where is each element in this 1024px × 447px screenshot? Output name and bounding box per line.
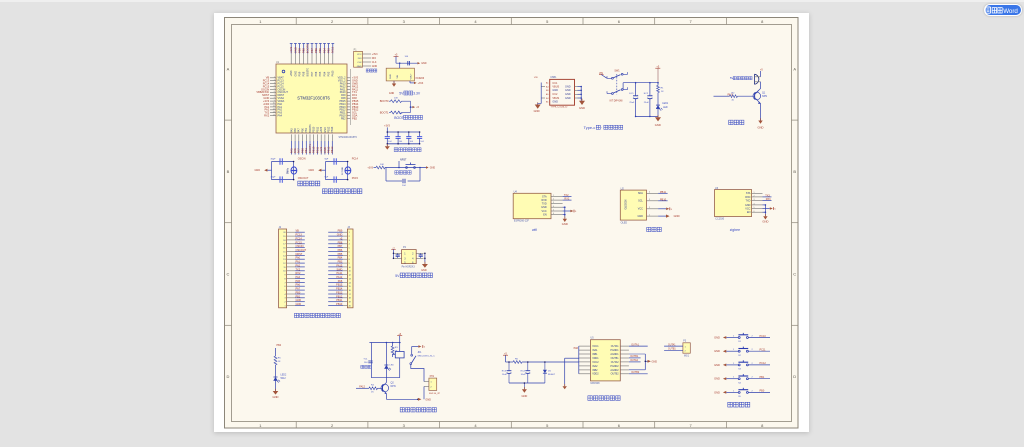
svg-text:16: 16 [283,248,285,250]
svg-text:2: 2 [754,196,755,198]
svg-text:2: 2 [349,236,350,238]
svg-text:30pF: 30pF [271,158,277,160]
svg-text:GND: GND [674,214,680,218]
svg-text:PA7: PA7 [297,148,301,153]
svg-text:OUTA2: OUTA2 [630,359,638,362]
svg-text:GND: GND [296,303,302,306]
svg-text:GND: GND [655,123,661,127]
svg-text:BOOT: BOOT [394,116,404,120]
svg-text:SWD: SWD [336,268,342,271]
svg-text:TYPE-C-31-M-12: TYPE-C-31-M-12 [551,107,569,109]
svg-text:NPN: NPN [762,95,767,98]
svg-text:GND: GND [552,101,558,104]
svg-text:PA6: PA6 [574,347,579,350]
svg-text:PC10: PC10 [760,335,767,338]
svg-text:LED: LED [663,107,668,109]
svg-text:CLK: CLK [357,62,362,64]
svg-text:GND: GND [323,147,327,153]
svg-text:5: 5 [274,88,275,90]
svg-text:OLED: OLED [621,222,628,225]
svg-text:PB7: PB7 [310,48,314,54]
svg-text:9: 9 [274,100,275,102]
svg-text:10: 10 [349,267,351,269]
svg-text:+3V3: +3V3 [290,70,293,77]
svg-text:GND: GND [652,360,658,363]
svg-text:PA15: PA15 [336,264,343,267]
svg-text:PB8: PB8 [303,71,306,76]
svg-text:16: 16 [349,290,351,292]
svg-text:PA7: PA7 [296,288,301,291]
svg-text:20: 20 [283,232,285,234]
svg-text:10uF: 10uF [521,374,527,376]
svg-text:1: 1 [685,346,686,348]
svg-text:18: 18 [349,298,351,300]
svg-text:5: 5 [754,207,755,209]
svg-text:INA2: INA2 [592,365,598,368]
svg-text:LED2: LED2 [281,375,287,377]
svg-text:9: 9 [349,263,350,265]
svg-text:TXD: TXD [542,202,547,205]
svg-text:+3V3: +3V3 [418,82,424,85]
svg-text:15: 15 [349,286,351,288]
svg-text:OSCOUT: OSCOUT [298,177,309,180]
svg-text:EN: EN [747,211,751,214]
svg-text:PB2: PB2 [341,117,346,120]
svg-text:GND: GND [324,127,327,133]
svg-text:GND: GND [745,204,751,207]
svg-text:PB13: PB13 [336,292,343,295]
svg-text:12: 12 [349,275,351,277]
svg-text:GND: GND [357,66,362,68]
svg-text:GND: GND [254,169,260,172]
svg-text:GND: GND [714,349,720,353]
svg-text:PB11: PB11 [315,146,319,153]
svg-text:1: 1 [274,77,275,79]
svg-text:C: C [793,272,796,277]
svg-text:18: 18 [283,240,285,242]
svg-text:30pF: 30pF [271,176,277,178]
svg-text:PB10: PB10 [336,303,343,306]
svg-text:GND: GND [389,92,395,95]
svg-text:PB1: PB1 [760,376,765,379]
svg-text:PC15: PC15 [352,177,359,180]
svg-text:PB12: PB12 [336,295,343,298]
svg-text:Pin HDR2X3: Pin HDR2X3 [402,267,416,269]
svg-text:7: 7 [274,94,275,96]
svg-text:D: D [227,374,230,379]
svg-text:PB0: PB0 [296,292,301,295]
svg-text:STM32F103C8T6: STM32F103C8T6 [297,96,330,101]
svg-text:OUTB2: OUTB2 [611,373,620,376]
svg-text:PB15: PB15 [336,284,343,287]
svg-text:17: 17 [349,294,351,296]
svg-text:GND: GND [552,89,558,92]
svg-text:11: 11 [284,267,286,269]
svg-text:GND: GND [308,169,314,172]
svg-text:PB5: PB5 [318,48,322,54]
svg-text:PA8: PA8 [338,280,343,283]
svg-text:BOOT0: BOOT0 [306,44,310,54]
svg-text:GND: GND [762,220,768,224]
svg-text:GND: GND [421,269,427,272]
svg-text:MX1508: MX1508 [591,382,601,385]
svg-text:PB5: PB5 [338,253,343,256]
svg-text:PB4: PB4 [323,71,326,76]
svg-text:OUTB1: OUTB1 [630,355,639,358]
svg-text:PB10: PB10 [313,126,316,133]
svg-text:PB0: PB0 [302,127,305,132]
svg-text:12: 12 [273,109,275,111]
svg-text:VDD2: VDD2 [592,373,599,376]
svg-text:GND: GND [372,65,378,68]
svg-text:PB1: PB1 [305,127,308,132]
svg-text:OUTA2: OUTA2 [611,361,619,364]
svg-text:INB1: INB1 [592,353,598,356]
svg-text:PB6: PB6 [338,249,343,252]
svg-text:PB11: PB11 [316,126,319,133]
svg-text:4: 4 [349,244,350,246]
svg-text:GND: GND [714,363,720,367]
svg-text:wifi: wifi [532,228,537,232]
svg-text:GND: GND [562,222,568,226]
svg-text:+3V3: +3V3 [372,53,378,56]
svg-text:VBUS: VBUS [552,97,559,100]
svg-text:TX2: TX2 [296,268,301,271]
svg-text:PB1: PB1 [296,295,301,298]
svg-text:GND: GND [430,167,436,170]
svg-text:PB1: PB1 [304,148,308,154]
svg-text:XH2.54_2P: XH2.54_2P [429,393,441,395]
svg-text:2: 2 [431,387,432,389]
svg-text:OLED096: OLED096 [625,199,627,210]
svg-text:RX2: RX2 [564,198,569,201]
svg-text:PC11: PC11 [760,349,767,352]
svg-text:1: 1 [349,232,350,234]
svg-text:4: 4 [754,204,755,206]
svg-text:PA5: PA5 [290,128,293,133]
svg-text:PB3: PB3 [328,71,331,76]
svg-text:+3V3: +3V3 [320,126,323,133]
svg-text:GND: GND [758,126,764,130]
svg-text:OUTA1: OUTA1 [668,343,676,346]
svg-text:VOUT: VOUT [411,73,413,80]
svg-text:PA11: PA11 [337,272,343,275]
svg-text:PB12: PB12 [327,146,331,153]
svg-text:Type-c: Type-c [584,125,596,130]
svg-text:SCL: SCL [638,200,643,203]
svg-text:TXD: TXD [746,199,751,202]
svg-text:XC6206: XC6206 [415,77,424,80]
svg-text:PA6: PA6 [296,284,301,287]
svg-text:10K: 10K [399,113,403,115]
svg-text:10: 10 [273,103,275,105]
svg-text:B: B [227,169,230,174]
svg-text:VB: VB [296,230,300,233]
svg-text:PB7: PB7 [338,245,343,248]
svg-text:13: 13 [349,278,351,280]
svg-text:PA6: PA6 [293,148,297,153]
svg-text:PB2: PB2 [352,116,357,120]
svg-text:GND: GND [565,85,571,88]
svg-text:5: 5 [284,290,285,292]
svg-text:PA1: PA1 [296,261,301,264]
svg-text:VCC: VCC [638,208,643,211]
svg-text:GND: GND [637,215,643,218]
svg-text:13: 13 [273,111,275,113]
svg-text:8: 8 [274,97,275,99]
svg-text:3: 3 [754,199,755,201]
svg-text:+3V3: +3V3 [319,146,323,153]
svg-text:BOOT1: BOOT1 [308,144,312,154]
svg-text:3: 3 [349,240,350,242]
svg-text:20: 20 [349,305,351,307]
svg-text:9pF: 9pF [325,158,329,160]
svg-text:GND: GND [425,398,431,401]
svg-text:PB6: PB6 [315,71,318,76]
svg-text:VCC: VCC [745,207,750,210]
svg-text:PB9: PB9 [298,71,301,76]
svg-text:STA: STA [746,192,751,195]
svg-text:PB3: PB3 [338,261,343,264]
svg-text:OSCIN: OSCIN [296,245,304,248]
svg-text:PB10: PB10 [312,146,316,153]
svg-text:1: 1 [284,305,285,307]
svg-text:PB13: PB13 [330,146,334,153]
svg-text:6: 6 [349,251,350,253]
svg-text:7: 7 [349,255,350,257]
svg-text:NPN: NPN [391,385,396,388]
svg-text:GND: GND [337,234,343,237]
svg-text:GND: GND [565,97,571,100]
svg-text:CC2: CC2 [552,93,558,96]
svg-text:PB4: PB4 [338,257,343,260]
svg-text:9pF: 9pF [325,176,329,178]
svg-text:VBUS: VBUS [552,85,559,88]
svg-text:PB10: PB10 [660,198,667,201]
svg-text:GND: GND [714,336,720,340]
svg-text:PB4: PB4 [277,344,282,347]
svg-text:13: 13 [283,259,285,261]
svg-text:3: 3 [553,202,554,204]
svg-text:5012: 5012 [281,378,287,380]
svg-text:3: 3 [284,298,285,300]
svg-text:11: 11 [273,106,275,108]
svg-text:14: 14 [273,114,275,116]
svg-text:8: 8 [284,278,285,280]
svg-text:PA15: PA15 [331,46,335,53]
svg-text:GND: GND [714,390,720,394]
svg-text:PA2: PA2 [296,264,301,267]
svg-text:KIT DIP-6X8: KIT DIP-6X8 [610,101,624,103]
svg-text:8: 8 [349,259,350,261]
svg-text:+3V3: +3V3 [289,46,293,53]
svg-text:6: 6 [754,211,755,213]
svg-text:17: 17 [283,244,285,246]
svg-text:BOOT0: BOOT0 [307,67,310,76]
svg-text:2: 2 [553,199,554,201]
svg-text:CLK: CLK [372,61,377,64]
svg-text:GND: GND [534,109,540,113]
svg-text:14: 14 [349,282,351,284]
svg-text:25uF: 25uF [629,102,635,104]
svg-text:GND: GND [522,394,528,398]
svg-text:NRST: NRST [296,253,303,256]
svg-text:OUTA1: OUTA1 [631,343,639,346]
svg-text:6: 6 [553,213,554,215]
svg-text:7: 7 [284,282,285,284]
svg-text:DIO: DIO [372,57,376,60]
svg-text:PB9: PB9 [338,230,343,233]
svg-text:1: 1 [553,195,554,197]
svg-text:PC13: PC13 [296,234,303,237]
svg-text:RXD: RXD [745,196,750,199]
svg-text:PB11: PB11 [660,191,667,194]
svg-text:GND: GND [294,71,297,77]
svg-text:1: 1 [754,192,755,194]
svg-text:PA5: PA5 [289,148,293,153]
svg-text:PA4: PA4 [296,276,301,279]
svg-text:PC14: PC14 [296,237,303,240]
svg-text:PA12: PA12 [336,276,343,279]
svg-text:19: 19 [283,236,285,238]
svg-text:OUTB1: OUTB1 [668,349,676,351]
svg-text:2: 2 [284,302,285,304]
svg-text:Word: Word [1003,7,1018,14]
svg-text:A: A [793,66,796,71]
svg-text:5: 5 [349,248,350,250]
svg-text:PA0: PA0 [296,257,301,260]
svg-text:IN4007: IN4007 [548,374,556,376]
svg-text:+3V3: +3V3 [367,167,373,170]
svg-text:OUTA1: OUTA1 [611,345,619,348]
svg-text:PB5: PB5 [319,71,322,76]
svg-text:VCC: VCC [357,54,362,56]
svg-text:8MHz: 8MHz [287,167,289,174]
svg-text:SW1: SW1 [614,70,620,73]
svg-text:10K: 10K [380,164,384,166]
svg-text:RX2: RX2 [296,272,301,275]
svg-text:PB7: PB7 [311,71,314,76]
svg-text:VCC1: VCC1 [592,345,599,348]
svg-text:PB6: PB6 [314,48,318,54]
svg-text:OSCIN: OSCIN [298,158,306,161]
svg-text:PA15: PA15 [332,70,335,77]
svg-text:OUTB1: OUTB1 [611,357,620,360]
svg-text:B: B [793,169,796,174]
svg-text:STM32F103C8T6: STM32F103C8T6 [339,137,358,139]
svg-text:PB14: PB14 [336,288,343,291]
svg-text:BOOT1: BOOT1 [309,124,312,133]
svg-text:LED1: LED1 [662,103,668,105]
svg-text:PB4: PB4 [322,48,326,54]
svg-text:PB11: PB11 [336,299,343,302]
svg-text:CC2530: CC2530 [715,217,724,220]
svg-text:PA4: PA4 [278,115,283,118]
svg-text:5: 5 [553,210,554,212]
svg-text:EN: EN [543,214,547,217]
svg-text:3: 3 [274,82,275,84]
svg-text:2: 2 [274,79,275,81]
svg-text:A: A [227,66,230,71]
svg-text:DIO: DIO [358,58,362,60]
svg-text:11: 11 [349,271,351,273]
svg-text:PB8: PB8 [338,241,343,244]
svg-text:VDD1: VDD1 [592,357,599,360]
svg-text:VIN: VIN [534,77,538,79]
svg-text:GND: GND [579,106,585,110]
svg-text:RX2: RX2 [264,114,270,118]
svg-text:6: 6 [274,91,275,93]
svg-text:USB1: USB1 [550,76,557,79]
svg-text:BOOT0: BOOT0 [380,99,389,103]
svg-text:1: 1 [431,382,432,384]
svg-text:PA7: PA7 [298,128,301,133]
svg-text:9: 9 [284,275,285,277]
svg-text:D: D [793,374,796,379]
svg-text:LED: LED [390,365,395,367]
svg-text:4: 4 [553,206,554,208]
svg-text:3.3V: 3.3V [413,91,421,95]
svg-text:PC12: PC12 [760,362,767,365]
svg-text:12: 12 [283,263,285,265]
svg-text:PB3: PB3 [327,48,331,54]
svg-text:PGND2: PGND2 [610,365,619,368]
svg-text:C: C [227,272,230,277]
svg-text:INB2: INB2 [592,369,598,372]
svg-text:GND: GND [714,377,720,381]
svg-text:SDA: SDA [638,192,643,195]
svg-text:+3V3: +3V3 [384,125,390,128]
svg-text:NRST: NRST [400,159,407,162]
svg-text:19: 19 [349,302,351,304]
svg-text:PB12: PB12 [328,126,331,133]
svg-text:zigbee: zigbee [730,228,740,232]
svg-text:VIN: VIN [397,74,399,78]
svg-text:6: 6 [284,286,285,288]
svg-text:ESP8266-12F: ESP8266-12F [514,219,530,222]
svg-text:MG1: MG1 [684,355,690,357]
svg-text:AGND2: AGND2 [610,369,619,372]
svg-text:10: 10 [283,271,285,273]
svg-text:PB8: PB8 [302,48,306,54]
svg-text:GND: GND [390,74,392,79]
svg-text:GND: GND [296,299,302,302]
svg-text:10uF: 10uF [502,374,508,376]
svg-text:GND: GND [541,206,547,209]
svg-text:INA1: INA1 [592,349,598,352]
svg-text:5V: 5V [395,274,400,278]
svg-text:PB9: PB9 [297,48,301,54]
svg-text:GND: GND [565,93,571,96]
svg-text:32.768K: 32.768K [342,166,344,175]
svg-text:4: 4 [284,294,285,296]
svg-text:PB13: PB13 [331,126,334,133]
svg-text:GND: GND [293,47,297,53]
svg-text:GND: GND [421,62,427,65]
svg-text:VCC: VCC [541,210,546,213]
svg-text:TX3: TX3 [765,195,770,198]
svg-text:5V: 5V [399,91,404,95]
svg-text:PA5: PA5 [296,280,301,283]
svg-text:10K: 10K [394,98,398,100]
svg-text:XH1: XH1 [430,376,435,378]
svg-text:GND: GND [273,395,279,399]
svg-text:AGND1: AGND1 [610,353,619,356]
svg-text:-: - [601,125,602,129]
svg-text:PB0: PB0 [760,390,765,393]
svg-text:SRD-05VDC-SL-C: SRD-05VDC-SL-C [418,356,436,358]
svg-text:PGND1: PGND1 [610,349,619,352]
